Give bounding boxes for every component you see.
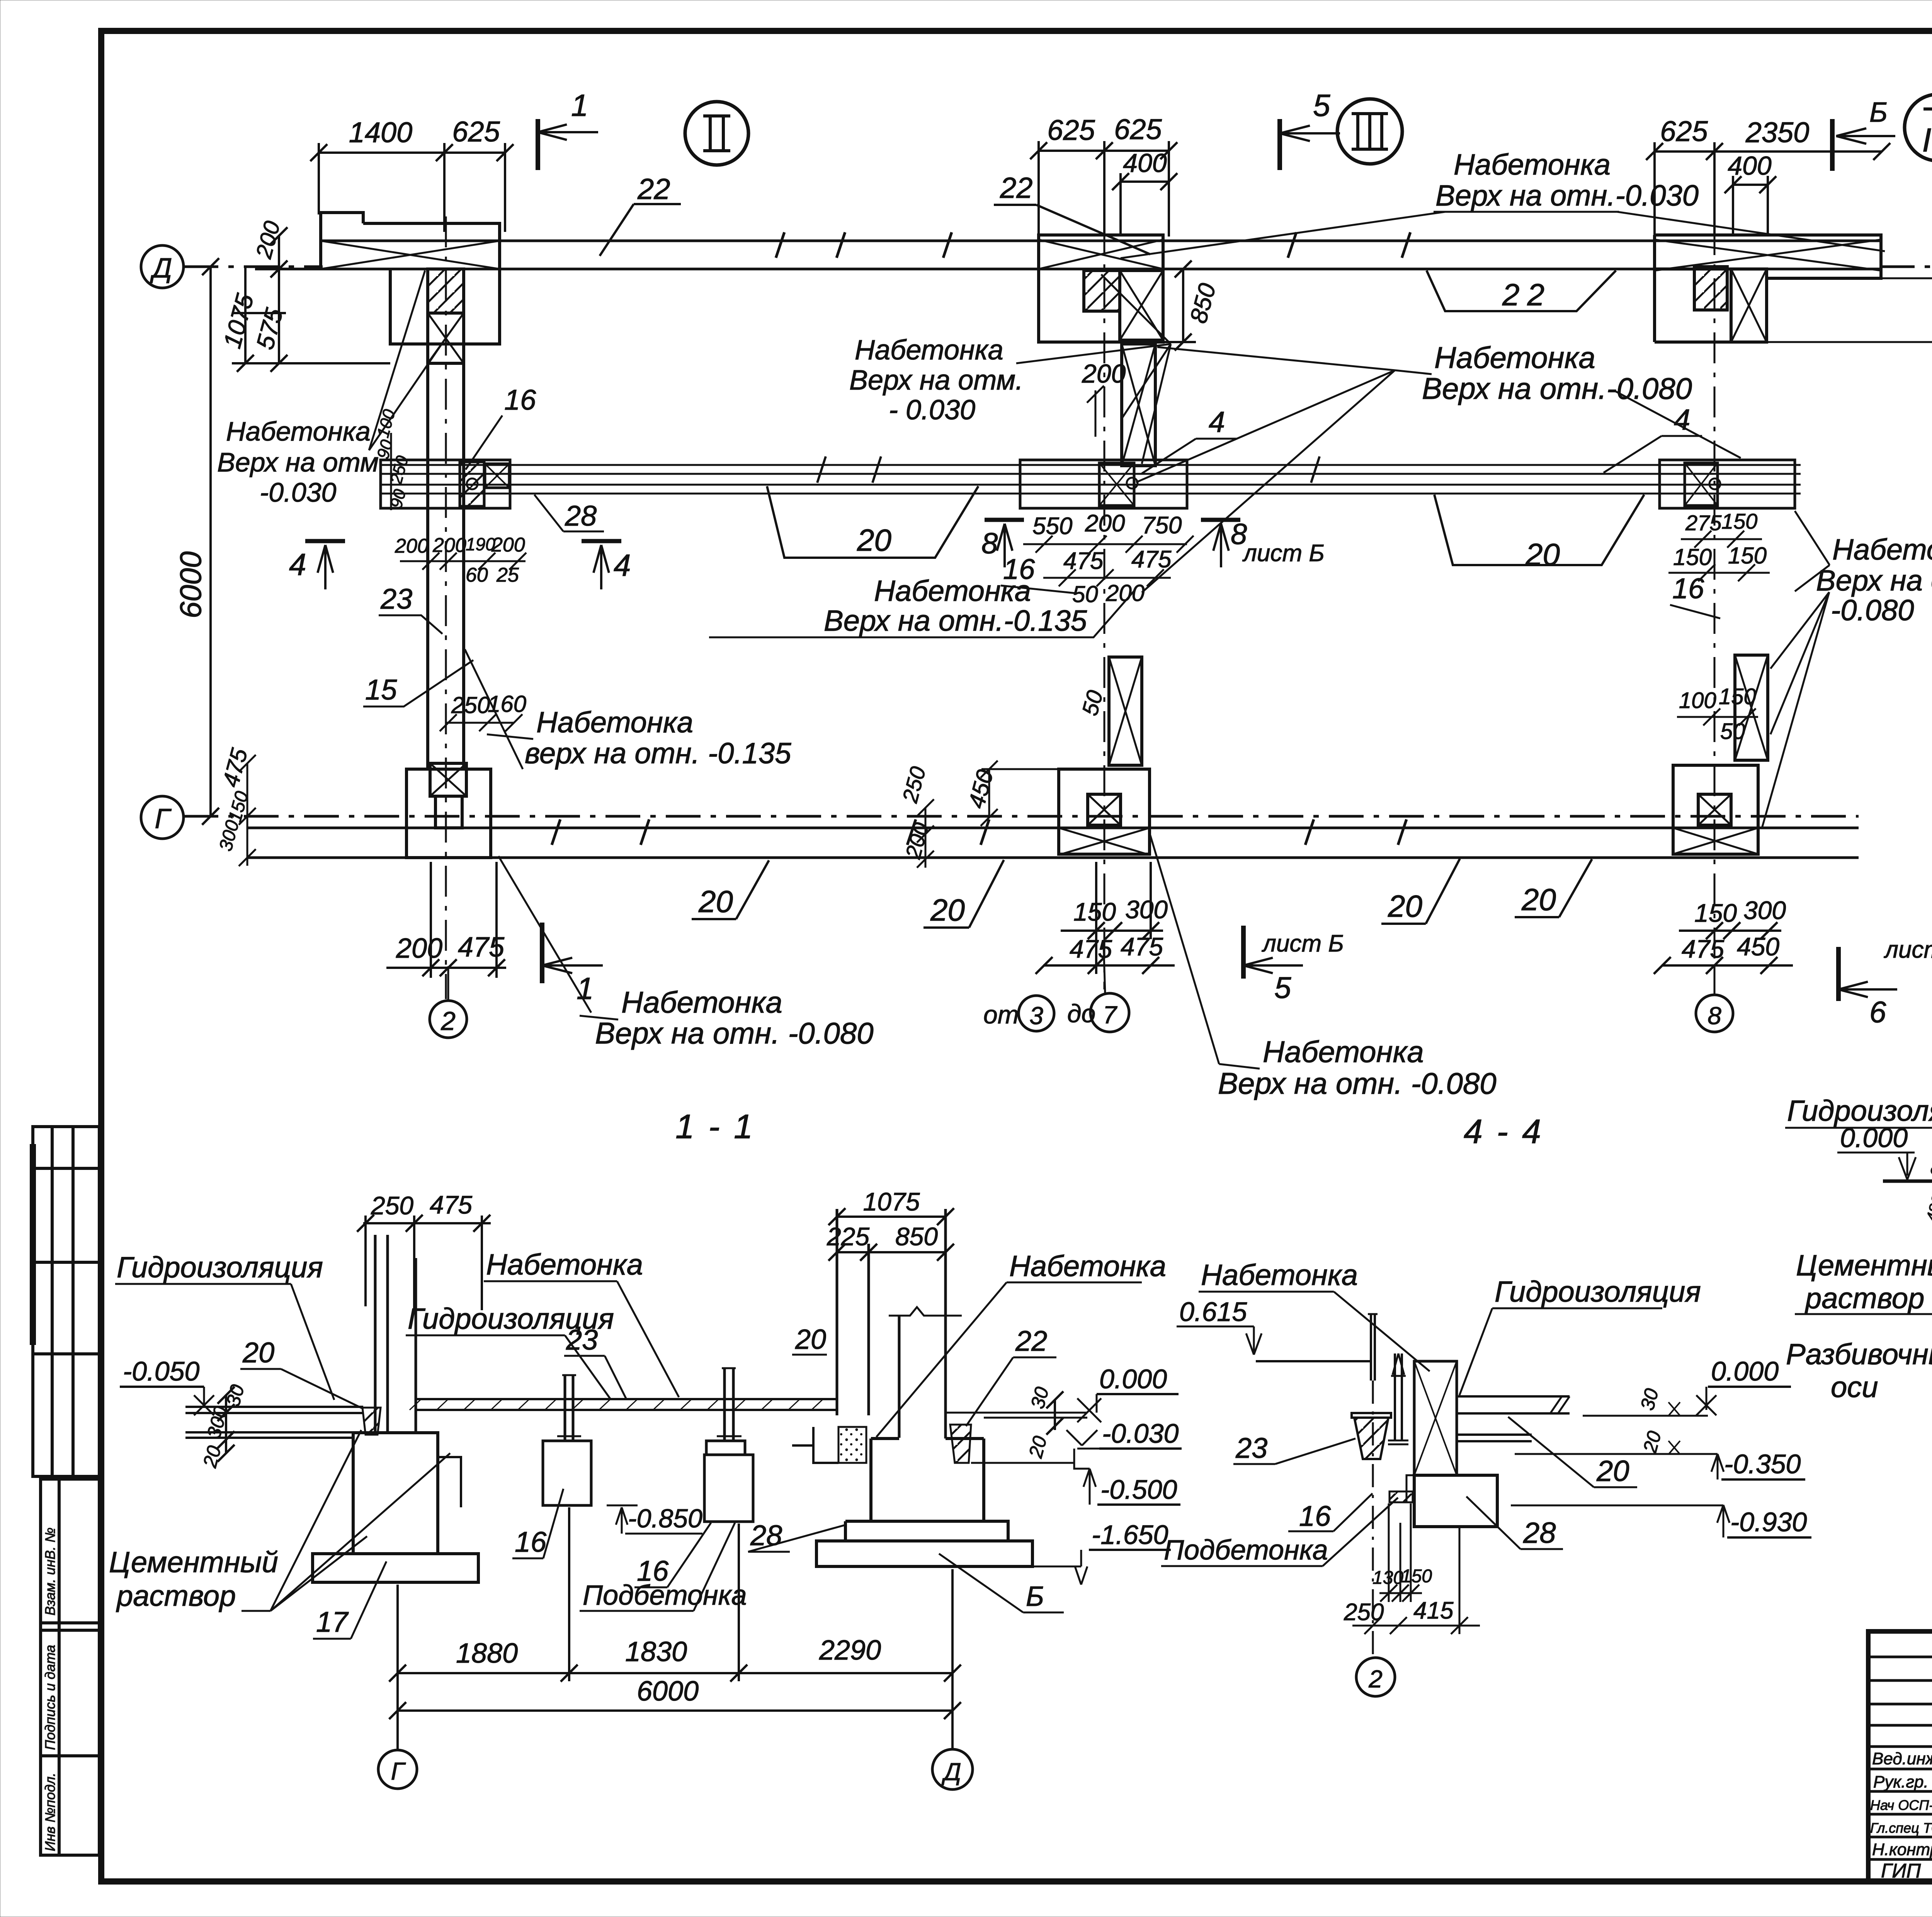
svg-text:Верх на отн.: Верх на отн. bbox=[1816, 564, 1932, 597]
svg-text:450: 450 bbox=[963, 767, 998, 811]
footing left dims bbox=[215, 746, 256, 866]
svg-text:15: 15 bbox=[365, 674, 397, 706]
label nabetonka -0.080 bottom col2 bbox=[595, 985, 874, 1050]
svg-text:0.615: 0.615 bbox=[1179, 1297, 1247, 1327]
svg-text:20: 20 bbox=[698, 884, 733, 919]
axis D circle bbox=[141, 245, 1932, 839]
svg-text:- 0.030: - 0.030 bbox=[889, 395, 975, 426]
svg-text:7: 7 bbox=[1103, 1001, 1117, 1029]
column 2 shaft bbox=[428, 216, 464, 999]
svg-text:лист Б: лист Б bbox=[1884, 936, 1932, 963]
svg-text:22: 22 bbox=[637, 173, 670, 206]
svg-text:IV: IV bbox=[1922, 122, 1932, 159]
svg-text:Набетонка: Набетонка bbox=[536, 706, 693, 739]
svg-text:Д: Д bbox=[150, 253, 172, 284]
svg-text:3: 3 bbox=[1029, 1002, 1043, 1030]
svg-text:Подпись и дата: Подпись и дата bbox=[42, 1645, 58, 1750]
svg-text:150: 150 bbox=[1721, 509, 1757, 533]
section 6 bottom bbox=[1838, 936, 1932, 1029]
svg-text:Нач ОСП-1: Нач ОСП-1 bbox=[1870, 1797, 1932, 1813]
middle joint col3 bbox=[1020, 460, 1187, 508]
dims below footing col8 bbox=[1654, 896, 1793, 974]
svg-text:475: 475 bbox=[1131, 546, 1172, 573]
svg-text:-0.050: -0.050 bbox=[123, 1356, 200, 1386]
svg-text:16: 16 bbox=[515, 1526, 547, 1558]
title block left grid bbox=[1868, 1631, 1932, 1881]
dim 850 right of col3 bbox=[1163, 260, 1221, 351]
X block 4-4 bbox=[1389, 1361, 1570, 1527]
svg-text:Набетонка: Набетонка bbox=[1454, 148, 1611, 181]
svg-text:150: 150 bbox=[1073, 897, 1116, 926]
svg-text:Набетонка: Набетонка bbox=[1434, 340, 1595, 375]
svg-text:250: 250 bbox=[451, 692, 490, 718]
svg-text:625: 625 bbox=[1047, 114, 1095, 146]
svg-text:Н.контр.: Н.контр. bbox=[1872, 1840, 1932, 1859]
wedge 23 of 4-4 bbox=[1352, 1413, 1391, 1418]
svg-text:22: 22 bbox=[1015, 1325, 1047, 1357]
svg-text:Г: Г bbox=[391, 1757, 406, 1785]
svg-text:лист Б: лист Б bbox=[1262, 930, 1344, 957]
svg-text:1830: 1830 bbox=[625, 1636, 687, 1667]
svg-text:480: 480 bbox=[1922, 1193, 1932, 1224]
svg-text:1880: 1880 bbox=[456, 1638, 518, 1669]
svg-text:раствор: раствор bbox=[1804, 1282, 1924, 1315]
svg-text:160: 160 bbox=[488, 691, 526, 717]
svg-text:625: 625 bbox=[452, 116, 500, 148]
svg-text:30: 30 bbox=[1926, 1156, 1932, 1179]
svg-text:Разбивочные: Разбивочные bbox=[1786, 1338, 1932, 1371]
svg-text:Гидроизоляция: Гидроизоляция bbox=[117, 1251, 323, 1284]
section 8 marks bbox=[981, 518, 1325, 567]
svg-text:150: 150 bbox=[1728, 543, 1767, 569]
svg-text:750: 750 bbox=[1142, 512, 1182, 539]
svg-text:20: 20 bbox=[1596, 1455, 1629, 1488]
svg-text:200: 200 bbox=[1085, 510, 1125, 537]
svg-text:-0.500: -0.500 bbox=[1100, 1474, 1177, 1505]
floor right of column 1-1 bbox=[946, 1413, 1087, 1463]
floor middle segment 1-1 bbox=[410, 1399, 837, 1410]
svg-text:200: 200 bbox=[491, 534, 525, 556]
svg-text:Набетонка: Набетонка bbox=[855, 335, 1003, 366]
label nabetonka -0.135 col3 bbox=[824, 575, 1087, 637]
svg-text:22: 22 bbox=[1502, 278, 1552, 312]
label nabetonka -0.080 right of col3 bbox=[1422, 340, 1692, 405]
svg-text:100: 100 bbox=[1679, 688, 1716, 713]
svg-text:475: 475 bbox=[1070, 935, 1112, 963]
svg-text:16: 16 bbox=[1672, 572, 1704, 604]
svg-text:-0.350: -0.350 bbox=[1724, 1449, 1801, 1479]
svg-text:1075: 1075 bbox=[863, 1187, 920, 1216]
detail IV circle bbox=[1905, 94, 1932, 161]
svg-text:Верх на отм.: Верх на отм. bbox=[849, 365, 1023, 396]
hatched wedges 1-1 bbox=[950, 1425, 971, 1463]
left wall 1-1 bbox=[375, 1235, 416, 1433]
svg-text:300: 300 bbox=[1743, 896, 1786, 924]
levels right 1-1 bbox=[1024, 1364, 1182, 1585]
svg-text:475: 475 bbox=[1121, 932, 1163, 961]
dims 4-4 bottom bbox=[1344, 1503, 1480, 1634]
svg-text:100: 100 bbox=[373, 407, 399, 439]
svg-text:23: 23 bbox=[380, 583, 412, 615]
svg-text:оси: оси bbox=[1831, 1371, 1878, 1404]
svg-text:Верх на отн. -0.080: Верх на отн. -0.080 bbox=[595, 1016, 874, 1050]
svg-text:23: 23 bbox=[566, 1324, 598, 1356]
right footing 1-1 bbox=[816, 1439, 1032, 1566]
svg-text:4: 4 bbox=[1209, 406, 1225, 439]
tall X col3 below bbox=[1109, 657, 1142, 765]
svg-text:475: 475 bbox=[1682, 935, 1724, 963]
svg-text:от: от bbox=[983, 1000, 1019, 1029]
svg-text:250: 250 bbox=[371, 1191, 413, 1220]
svg-text:20: 20 bbox=[242, 1336, 274, 1369]
label nabetonka -0.030 left bbox=[217, 416, 379, 507]
svg-text:150: 150 bbox=[1673, 544, 1712, 570]
detail II circle bbox=[685, 102, 748, 165]
svg-text:Подбетонка: Подбетонка bbox=[1164, 1535, 1328, 1566]
svg-text:1 - 1: 1 - 1 bbox=[675, 1107, 755, 1146]
floor left segment 1-1 bbox=[185, 1407, 363, 1438]
left footing 1-1 bbox=[313, 1433, 478, 1582]
svg-text:4: 4 bbox=[289, 547, 306, 582]
svg-text:Набетонка: Набетонка bbox=[1832, 533, 1932, 566]
svg-text:6000: 6000 bbox=[173, 551, 207, 618]
svg-text:625: 625 bbox=[1660, 115, 1708, 147]
svg-text:верх на отн. -0.135: верх на отн. -0.135 bbox=[525, 737, 791, 770]
circle 8 bbox=[1696, 995, 1733, 1032]
section mark 5 top bbox=[1280, 88, 1340, 170]
svg-text:4: 4 bbox=[614, 548, 631, 582]
svg-text:225: 225 bbox=[827, 1222, 869, 1251]
svg-text:475: 475 bbox=[458, 932, 505, 963]
svg-text:лист Б: лист Б bbox=[1242, 540, 1325, 567]
anchor bolt 2 of 4-4 bbox=[1388, 1353, 1408, 1444]
label nabetonka -0.030 top between III and IV bbox=[1435, 148, 1699, 212]
svg-text:4: 4 bbox=[1674, 403, 1690, 436]
label razbivochnye osi 3-3 bbox=[1786, 1338, 1932, 1404]
small dims under joint bbox=[373, 407, 526, 586]
svg-text:850: 850 bbox=[1185, 281, 1221, 326]
levels 4-4 bbox=[1511, 1356, 1811, 1537]
svg-text:50: 50 bbox=[1720, 719, 1745, 744]
middle joint col8 bbox=[1660, 460, 1795, 508]
svg-text:20: 20 bbox=[930, 893, 965, 927]
detail III circle bbox=[1337, 99, 1402, 164]
svg-text:Д: Д bbox=[941, 1758, 961, 1786]
dims 200 1075 575 bbox=[218, 218, 390, 372]
levels left 1-1 bbox=[120, 1356, 248, 1470]
svg-text:Г: Г bbox=[155, 804, 172, 834]
svg-text:550: 550 bbox=[1032, 513, 1072, 540]
svg-text:Набетонка: Набетонка bbox=[226, 416, 371, 446]
circle 2 bbox=[430, 1001, 467, 1038]
svg-text:2: 2 bbox=[440, 1006, 456, 1036]
svg-text:475: 475 bbox=[430, 1190, 472, 1219]
dims 1075 / 225 850 right part bbox=[827, 1187, 954, 1261]
dim 1400/625 bbox=[310, 116, 514, 232]
svg-text:Б: Б bbox=[1026, 1581, 1044, 1612]
svg-text:Набетонка: Набетонка bbox=[874, 575, 1031, 608]
anchor bolt pedestal 2 bbox=[704, 1368, 753, 1522]
svg-text:Верх на отм: Верх на отм bbox=[217, 447, 379, 477]
title block signature names bbox=[1870, 1748, 1932, 1882]
svg-text:2350: 2350 bbox=[1745, 116, 1810, 148]
dims 200 475 below footing bbox=[386, 862, 506, 978]
cementnyj rastvor 1-1 bbox=[109, 1546, 278, 1612]
svg-text:190: 190 bbox=[466, 534, 495, 554]
svg-text:Верх на отн.-0.030: Верх на отн.-0.030 bbox=[1435, 179, 1699, 212]
label nabetonka -0.030 (between II and III) bbox=[849, 335, 1023, 426]
svg-text:6000: 6000 bbox=[637, 1676, 699, 1707]
svg-text:28: 28 bbox=[1523, 1517, 1556, 1549]
svg-text:-1.650: -1.650 bbox=[1092, 1520, 1168, 1550]
dim 625 625 col3 bbox=[1030, 113, 1177, 237]
section 4 marks bbox=[289, 541, 631, 589]
svg-text:150: 150 bbox=[1719, 684, 1756, 709]
svg-text:475: 475 bbox=[1063, 548, 1104, 574]
svg-text:Гидроизоляция: Гидроизоляция bbox=[1495, 1275, 1701, 1308]
svg-text:-0.930: -0.930 bbox=[1730, 1507, 1807, 1537]
svg-text:-0.850: -0.850 bbox=[628, 1504, 702, 1533]
svg-text:450: 450 bbox=[1737, 932, 1779, 961]
svg-text:20: 20 bbox=[1639, 1428, 1665, 1455]
svg-text:23: 23 bbox=[1235, 1432, 1267, 1464]
svg-text:Гл.спец ТО: Гл.спец ТО bbox=[1870, 1820, 1932, 1836]
svg-text:20: 20 bbox=[1525, 537, 1560, 572]
svg-text:1880: 1880 bbox=[1926, 695, 1932, 755]
svg-text:28: 28 bbox=[565, 500, 597, 532]
svg-text:Цементный: Цементный bbox=[109, 1546, 278, 1579]
svg-text:5: 5 bbox=[1274, 970, 1291, 1004]
circles G D 1-1 bbox=[378, 1750, 417, 1789]
svg-text:30: 30 bbox=[1636, 1386, 1663, 1412]
svg-text:Цементный: Цементный bbox=[1796, 1249, 1932, 1282]
nabetonka label right col8 bbox=[1816, 533, 1932, 627]
svg-text:150: 150 bbox=[224, 789, 252, 824]
svg-text:Взам. инВ. №: Взам. инВ. № bbox=[42, 1527, 58, 1616]
section 5 bottom bbox=[1243, 926, 1344, 1004]
svg-text:6: 6 bbox=[1869, 995, 1886, 1029]
footing col3 bbox=[1059, 769, 1150, 855]
nabetonka dotted under floor left of column bbox=[838, 1427, 866, 1463]
dims 275 150 col8 bbox=[1668, 509, 1770, 581]
svg-text:Инв №подл.: Инв №подл. bbox=[42, 1773, 58, 1851]
svg-text:200: 200 bbox=[395, 535, 429, 557]
section mark 1 bottom bbox=[542, 923, 603, 1006]
circle 2 (4-4) bbox=[1356, 1658, 1395, 1696]
svg-text:20: 20 bbox=[1024, 1433, 1051, 1460]
svg-text:Верх на отн. -0.080: Верх на отн. -0.080 bbox=[1218, 1066, 1497, 1100]
svg-text:300: 300 bbox=[1125, 895, 1168, 924]
svg-text:8: 8 bbox=[981, 527, 998, 560]
svg-text:8: 8 bbox=[1708, 1002, 1721, 1030]
svg-text:250: 250 bbox=[897, 764, 930, 806]
svg-text:1400: 1400 bbox=[349, 116, 413, 148]
4-4 axis and anchor bolt on axis bbox=[1368, 1313, 1378, 1658]
right rotated dims col8 bbox=[1767, 222, 1932, 816]
label cementnyj rastvor 3-3 bbox=[1796, 1249, 1932, 1315]
3-3 left dims bbox=[1922, 1156, 1932, 1256]
middle wall band 20/28 bbox=[381, 456, 1801, 494]
footing col8 bbox=[1673, 765, 1758, 854]
axis D line bbox=[184, 266, 323, 268]
svg-text:300: 300 bbox=[215, 818, 243, 853]
svg-text:17: 17 bbox=[316, 1606, 349, 1638]
svg-text:16: 16 bbox=[504, 384, 536, 416]
svg-text:20: 20 bbox=[857, 523, 891, 557]
left stamp strip lower bbox=[41, 1479, 99, 1855]
svg-text:0.000: 0.000 bbox=[1711, 1356, 1779, 1386]
svg-text:50: 50 bbox=[1077, 688, 1108, 718]
section mark 1 top bbox=[538, 88, 598, 170]
svg-text:Б: Б bbox=[1869, 97, 1888, 128]
svg-text:400: 400 bbox=[1123, 148, 1167, 178]
label nabetonka -0.080 under III bbox=[1218, 1035, 1497, 1100]
svg-text:Набетонка: Набетонка bbox=[621, 985, 782, 1019]
dims 625 2350 400 col8 bbox=[1646, 115, 1890, 237]
slab and column 3 bbox=[1039, 224, 1163, 989]
top dims 250 475 bbox=[357, 1190, 491, 1310]
svg-text:Рук.гр.: Рук.гр. bbox=[1873, 1772, 1929, 1791]
svg-text:850: 850 bbox=[895, 1222, 938, 1251]
top wall band 22 bbox=[255, 232, 1882, 269]
svg-text:Набетонка: Набетонка bbox=[1263, 1035, 1424, 1069]
svg-text:Верх на отн.-0.080: Верх на отн.-0.080 bbox=[1422, 371, 1692, 405]
svg-text:Набетонка: Набетонка bbox=[1201, 1259, 1358, 1292]
stamp strip rotated labels bbox=[42, 1527, 58, 1851]
svg-text:5: 5 bbox=[1313, 88, 1330, 123]
left 6000 dim bbox=[173, 258, 219, 825]
slab outline col2 bbox=[321, 213, 500, 344]
section mark B top bbox=[1832, 97, 1895, 171]
svg-text:150: 150 bbox=[1694, 899, 1737, 927]
svg-text:4 - 4: 4 - 4 bbox=[1464, 1112, 1543, 1151]
svg-text:2: 2 bbox=[1368, 1665, 1383, 1693]
svg-text:Подбетонка: Подбетонка bbox=[583, 1580, 747, 1611]
slab col8 bbox=[1655, 224, 1881, 989]
svg-text:20: 20 bbox=[1521, 882, 1556, 917]
svg-text:150: 150 bbox=[1401, 1566, 1432, 1587]
dims 550 200 750 / 475 475 col3 bbox=[1023, 510, 1194, 607]
svg-text:22: 22 bbox=[1000, 172, 1033, 204]
svg-text:-0.030: -0.030 bbox=[260, 477, 337, 507]
svg-text:20: 20 bbox=[1388, 889, 1422, 923]
svg-text:2290: 2290 bbox=[819, 1635, 881, 1666]
svg-text:Верх на отн.-0.135: Верх на отн.-0.135 bbox=[824, 604, 1087, 637]
tall X col8 bbox=[1735, 655, 1768, 760]
3-3 body bbox=[1883, 1108, 1932, 1277]
svg-text:20: 20 bbox=[795, 1324, 826, 1355]
svg-text:275: 275 bbox=[1685, 511, 1722, 535]
svg-text:50: 50 bbox=[1072, 581, 1098, 607]
dims below footing col3 bbox=[1036, 862, 1175, 974]
svg-text:ГИП: ГИП bbox=[1881, 1860, 1921, 1882]
svg-text:25: 25 bbox=[496, 564, 519, 586]
svg-text:-0.030: -0.030 bbox=[1102, 1418, 1179, 1449]
svg-text:Набетонка: Набетонка bbox=[486, 1248, 643, 1281]
svg-text:0.000: 0.000 bbox=[1840, 1123, 1908, 1153]
svg-text:Набетонка: Набетонка bbox=[1009, 1250, 1166, 1283]
svg-text:200: 200 bbox=[1082, 359, 1126, 388]
svg-text:1: 1 bbox=[571, 88, 588, 123]
svg-text:-0.080: -0.080 bbox=[1831, 594, 1914, 627]
right column 1-1 bbox=[837, 1209, 962, 1439]
svg-text:400: 400 bbox=[1728, 151, 1772, 180]
svg-text:415: 415 bbox=[1413, 1597, 1454, 1624]
svg-text:16: 16 bbox=[1299, 1500, 1331, 1532]
bottom dims 1-1 bbox=[389, 1507, 961, 1750]
axis G line bbox=[184, 815, 1859, 818]
axis G circle bbox=[141, 796, 184, 839]
left stamp strip upper bbox=[33, 1127, 99, 1476]
svg-text:200: 200 bbox=[396, 933, 442, 964]
svg-text:Вед.инж.: Вед.инж. bbox=[1872, 1749, 1932, 1768]
svg-text:0.000: 0.000 bbox=[1099, 1364, 1167, 1394]
title block outer bbox=[1868, 1631, 1932, 1881]
svg-text:60: 60 bbox=[466, 564, 488, 586]
450 dim col3 footing bbox=[963, 761, 1059, 826]
middle joint col2 bbox=[381, 460, 510, 508]
footing col2 bbox=[406, 763, 491, 858]
svg-text:раствор: раствор bbox=[116, 1580, 236, 1612]
anchor bolt pedestal 1 bbox=[543, 1375, 591, 1505]
label nabetonka -0.135 col2 bbox=[525, 706, 791, 770]
svg-text:625: 625 bbox=[1114, 113, 1162, 145]
bottom wall band 20 bbox=[247, 819, 1859, 858]
250/200 dims left of col3 bottom bbox=[897, 764, 934, 868]
